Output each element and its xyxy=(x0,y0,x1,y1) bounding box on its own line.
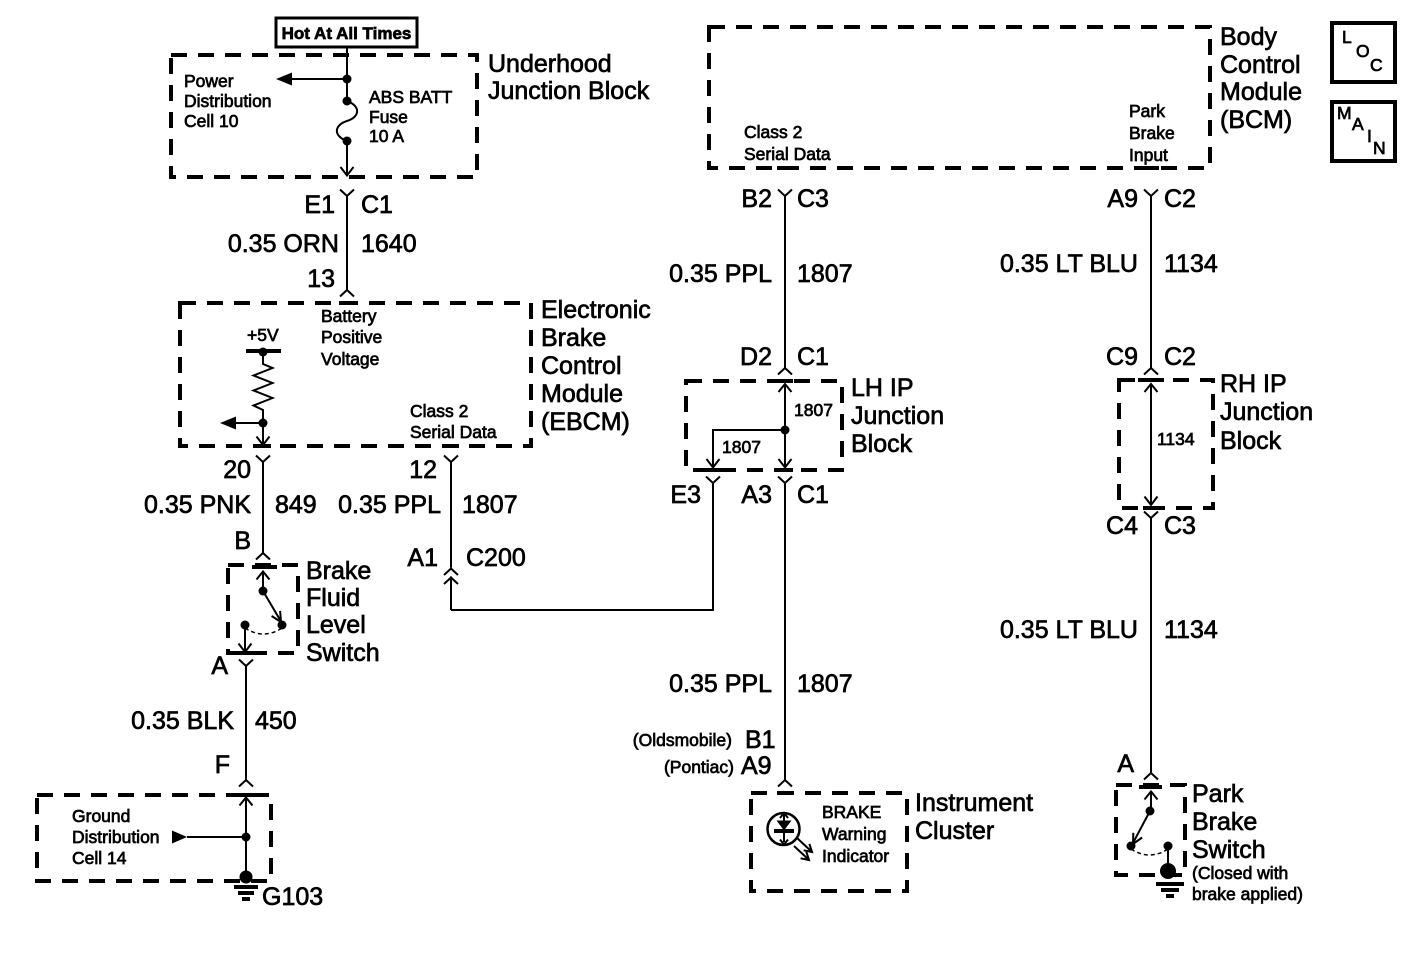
svg-text:1134: 1134 xyxy=(1164,250,1218,278)
svg-text:Brake: Brake xyxy=(1129,123,1175,143)
LOC legend box xyxy=(1332,23,1395,82)
internal branch wire to E3 xyxy=(707,430,786,468)
svg-text:20: 20 xyxy=(223,456,251,484)
Brake Fluid Level Switch box xyxy=(228,565,298,653)
connector chevron into Park Brake Switch pin A xyxy=(1144,773,1158,780)
svg-text:Brake: Brake xyxy=(541,324,606,352)
svg-text:A9: A9 xyxy=(741,752,772,780)
svg-text:A: A xyxy=(1117,750,1134,778)
EBCM edge dash at pin 12 xyxy=(443,444,459,448)
edge dash at ground wire entry xyxy=(238,793,254,797)
svg-text:C2: C2 xyxy=(1164,343,1196,371)
svg-text:1640: 1640 xyxy=(361,230,417,258)
Park Brake Input label (BCM) xyxy=(1129,101,1175,165)
svg-text:brake applied): brake applied) xyxy=(1192,884,1303,904)
switch pivot dot xyxy=(1146,807,1155,816)
Brake Fluid Level Switch label xyxy=(306,557,380,667)
svg-text:Cell 14: Cell 14 xyxy=(72,848,127,868)
dashed travel arc xyxy=(1131,849,1168,855)
svg-text:O: O xyxy=(1356,41,1370,61)
ground symbol G103 xyxy=(234,887,258,899)
svg-text:L: L xyxy=(1342,27,1352,47)
BRAKE Warning Indicator label xyxy=(822,802,889,866)
Body Control Module (BCM) box xyxy=(709,27,1210,168)
svg-text:Block: Block xyxy=(851,430,913,458)
svg-text:Block: Block xyxy=(1220,427,1282,455)
svg-text:ABS BATT: ABS BATT xyxy=(369,87,453,107)
switch left contact dot xyxy=(1127,842,1136,851)
svg-text:C4: C4 xyxy=(1106,512,1138,540)
switch blade with arrowhead xyxy=(263,591,281,622)
Instrument Cluster label xyxy=(915,789,1033,845)
resistor R1 (pull-up in EBCM) xyxy=(254,352,273,423)
svg-text:Cluster: Cluster xyxy=(915,817,994,845)
connector chevron into Instrument Cluster xyxy=(778,780,792,787)
wire below C200 xyxy=(450,577,452,611)
switch left contact dot xyxy=(241,621,250,630)
connector chevron pin A xyxy=(239,660,253,667)
in-line connector C200 double chevron xyxy=(444,569,458,585)
svg-text:Battery: Battery xyxy=(321,306,377,326)
connector chevron pin 12 (EBCM) xyxy=(444,456,458,463)
svg-text:C: C xyxy=(1370,55,1383,75)
Electronic Brake Control Module (EBCM) label xyxy=(541,296,651,436)
svg-text:0.35 PNK: 0.35 PNK xyxy=(144,491,251,519)
Instrument Cluster box xyxy=(751,793,907,891)
svg-text:C3: C3 xyxy=(1164,512,1196,540)
svg-text:A3: A3 xyxy=(741,481,772,509)
svg-text:(Closed with: (Closed with xyxy=(1192,863,1288,883)
connector chevron LH IP pin A3 xyxy=(778,477,792,484)
svg-text:(Oldsmobile): (Oldsmobile) xyxy=(633,730,732,750)
switch blade with arrowhead xyxy=(1133,811,1150,844)
svg-text:Warning: Warning xyxy=(822,824,887,844)
svg-text:Distribution: Distribution xyxy=(184,91,272,111)
svg-text:BRAKE: BRAKE xyxy=(822,802,881,822)
RH IP Junction Block box xyxy=(1119,380,1213,508)
svg-text:C2: C2 xyxy=(1164,185,1196,213)
svg-text:849: 849 xyxy=(275,491,317,519)
EBCM box xyxy=(180,303,531,446)
svg-text:Control: Control xyxy=(541,352,622,380)
internal wire down to A3 with arrow xyxy=(779,430,792,468)
svg-text:0.35 PPL: 0.35 PPL xyxy=(669,260,772,288)
Closed with brake applied note xyxy=(1192,863,1303,904)
svg-text:(EBCM): (EBCM) xyxy=(541,408,630,436)
MAIN legend box xyxy=(1332,102,1395,161)
wire 0.35 PPL 1807 (LH IP to Instrument Cluster) xyxy=(784,483,786,780)
wire 0.35 LT BLU 1134 (RH IP to Park Brake Switch) xyxy=(1150,518,1152,773)
wire 0.35 LT BLU 1134 (BCM to RH IP) xyxy=(1150,196,1152,368)
EBCM edge dash at pin 20 xyxy=(255,444,271,448)
svg-text:F: F xyxy=(215,751,230,779)
svg-text:D2: D2 xyxy=(740,343,772,371)
wire 0.35 PPL 1807 (EBCM to C200) xyxy=(450,462,452,568)
svg-text:450: 450 xyxy=(255,707,297,735)
svg-text:Switch: Switch xyxy=(1192,836,1266,864)
Underhood Junction Block box xyxy=(171,55,477,177)
wire 0.35 PPL 1807 (BCM to LH IP) xyxy=(784,196,786,368)
svg-text:12: 12 xyxy=(409,456,437,484)
svg-text:G103: G103 xyxy=(262,883,323,911)
wire 0.35 PNK 849 xyxy=(262,462,264,553)
wire from Hot At All Times into Underhood Junction Block xyxy=(346,47,348,101)
terminal bar pin A xyxy=(1139,785,1162,789)
Battery Positive Voltage label xyxy=(321,306,382,369)
svg-text:Instrument: Instrument xyxy=(915,789,1033,817)
svg-text:Park: Park xyxy=(1192,780,1244,808)
svg-text:M: M xyxy=(1337,103,1352,123)
wire to EBCM pin 20 with arrow xyxy=(257,423,270,445)
switch right contact dot xyxy=(278,621,287,630)
LH IP edge dash at pin D2 xyxy=(777,379,793,383)
connector chevron RH IP pin C4 xyxy=(1144,512,1158,519)
svg-text:Class 2: Class 2 xyxy=(410,401,468,421)
svg-text:E1: E1 xyxy=(304,191,335,219)
wire from contact to ground dot xyxy=(1167,846,1169,871)
internal wire with up arrow (LH IP) xyxy=(779,384,792,430)
switch right contact dot xyxy=(1164,842,1173,851)
svg-text:Fuse: Fuse xyxy=(369,107,408,127)
switch S2 internal arrow up xyxy=(1145,792,1158,812)
svg-text:C1: C1 xyxy=(797,343,829,371)
LED indicator lamp symbol xyxy=(768,813,800,845)
fuse F1 ABS BATT 10 A xyxy=(337,97,357,146)
wire 0.35 BLK 450 xyxy=(245,666,247,780)
branch arrow to ground distribution xyxy=(172,831,246,844)
Ground Distribution Cell 14 box xyxy=(37,795,271,881)
svg-text:A: A xyxy=(1352,114,1364,134)
svg-text:0.35 BLK: 0.35 BLK xyxy=(131,707,234,735)
svg-text:Distribution: Distribution xyxy=(72,827,160,847)
svg-text:A: A xyxy=(211,652,228,680)
connector chevron BCM pin A9 xyxy=(1144,190,1158,197)
ground terminal dot (Park Brake Switch) xyxy=(1160,863,1176,879)
Class 2 Serial Data label (BCM) xyxy=(744,122,831,164)
svg-text:0.35 ORN: 0.35 ORN xyxy=(228,230,339,258)
Park Brake Switch box xyxy=(1116,785,1185,875)
svg-text:C9: C9 xyxy=(1106,343,1138,371)
svg-text:1807: 1807 xyxy=(722,437,761,457)
svg-text:(Pontiac): (Pontiac) xyxy=(664,757,734,777)
junction dot at fuse top branch xyxy=(343,75,352,84)
internal wire through RH IP with arrows xyxy=(1145,384,1158,505)
svg-text:RH IP: RH IP xyxy=(1220,370,1287,398)
svg-text:Hot At All Times: Hot At All Times xyxy=(282,24,412,43)
ABS BATT Fuse 10 A label xyxy=(369,87,453,146)
svg-text:1807: 1807 xyxy=(462,491,518,519)
internal branch left arrow xyxy=(220,417,263,430)
wire from fuse to box edge with arrow xyxy=(341,141,354,176)
Underhood Junction Block label xyxy=(488,50,650,105)
svg-text:Switch: Switch xyxy=(306,639,380,667)
ground wire with up arrow xyxy=(240,798,253,878)
connector chevron into LH IP pin D2 xyxy=(778,368,792,375)
svg-text:Positive: Positive xyxy=(321,327,382,347)
wire branch to Power Distribution (left arrow) xyxy=(276,73,347,86)
connector chevron into Brake Fluid Level Switch pin B xyxy=(256,553,270,560)
LH IP edge dash at pin E3 exit xyxy=(705,468,721,472)
svg-text:Power: Power xyxy=(184,71,234,91)
svg-text:Brake: Brake xyxy=(306,557,371,585)
svg-text:0.35 LT BLU: 0.35 LT BLU xyxy=(1000,616,1138,644)
junction dot below resistor xyxy=(259,419,268,428)
Body Control Module (BCM) label xyxy=(1220,23,1302,134)
svg-text:LH IP: LH IP xyxy=(851,374,914,402)
junction dot on ground wire xyxy=(242,833,251,842)
svg-text:A1: A1 xyxy=(407,544,438,572)
EBCM edge dash at pin 13 xyxy=(339,301,355,305)
wire run from C200 to LH IP pin E3 xyxy=(451,483,713,610)
svg-text:Module: Module xyxy=(1220,78,1302,106)
svg-text:Cell 10: Cell 10 xyxy=(184,111,239,131)
svg-text:0.35 PPL: 0.35 PPL xyxy=(669,670,772,698)
+5V supply bar xyxy=(246,349,281,353)
junction dot in LH IP xyxy=(781,426,790,435)
dashed travel arc xyxy=(245,628,282,634)
svg-text:Park: Park xyxy=(1129,101,1165,121)
svg-text:B: B xyxy=(234,527,251,555)
svg-text:B2: B2 xyxy=(741,185,772,213)
LH IP Junction Block box xyxy=(686,381,842,470)
RH IP Junction Block label xyxy=(1220,370,1313,455)
terminal bar pin B xyxy=(252,565,277,569)
svg-text:C1: C1 xyxy=(361,191,393,219)
svg-text:N: N xyxy=(1373,138,1386,158)
Power Distribution Cell 10 label xyxy=(184,71,272,131)
svg-text:E3: E3 xyxy=(670,481,701,509)
ground terminal dot G103 xyxy=(240,871,253,884)
LH IP edge dash at pin A3 exit xyxy=(777,468,793,472)
svg-text:Junction: Junction xyxy=(1220,398,1313,426)
svg-text:Serial Data: Serial Data xyxy=(744,144,831,164)
svg-text:Control: Control xyxy=(1220,51,1301,79)
svg-text:(BCM): (BCM) xyxy=(1220,106,1292,134)
svg-text:A9: A9 xyxy=(1107,185,1138,213)
box edge dash at pin A xyxy=(237,651,253,655)
svg-text:0.35 PPL: 0.35 PPL xyxy=(338,491,441,519)
svg-text:Fluid: Fluid xyxy=(306,584,360,612)
connector chevron into Ground Distribution pin F xyxy=(239,780,253,787)
svg-text:Brake: Brake xyxy=(1192,808,1257,836)
svg-text:1807: 1807 xyxy=(797,670,853,698)
svg-text:Input: Input xyxy=(1129,145,1168,165)
Park Brake Switch label xyxy=(1192,780,1266,864)
LH IP Junction Block label xyxy=(851,374,944,458)
svg-text:+5V: +5V xyxy=(247,325,279,345)
BCM edge dash at Park Brake Input exit xyxy=(1143,166,1159,170)
svg-text:C200: C200 xyxy=(466,544,526,572)
svg-text:Serial Data: Serial Data xyxy=(410,422,497,442)
BCM edge dash at Class 2 exit xyxy=(777,166,793,170)
svg-text:0.35 LT BLU: 0.35 LT BLU xyxy=(1000,250,1138,278)
svg-text:10 A: 10 A xyxy=(369,126,404,146)
svg-text:1134: 1134 xyxy=(1164,616,1218,644)
svg-text:I: I xyxy=(1367,126,1372,146)
RH IP edge dash at pin C4 xyxy=(1143,506,1159,510)
wire 0.35 ORN 1640 xyxy=(346,196,348,290)
svg-text:1807: 1807 xyxy=(794,400,833,420)
svg-text:1134: 1134 xyxy=(1157,429,1195,449)
Ground Distribution Cell 14 label xyxy=(72,806,160,868)
connector chevron into EBCM pin 13 xyxy=(340,290,354,297)
wire from left contact to pin A with arrow xyxy=(239,625,252,652)
svg-text:Underhood: Underhood xyxy=(488,50,612,78)
svg-text:Junction: Junction xyxy=(851,402,944,430)
svg-text:Electronic: Electronic xyxy=(541,296,651,324)
svg-text:Indicator: Indicator xyxy=(822,846,889,866)
connector chevron into RH IP pin C9 xyxy=(1144,368,1158,375)
svg-text:Body: Body xyxy=(1220,23,1277,51)
svg-text:Class 2: Class 2 xyxy=(744,122,802,142)
svg-text:1807: 1807 xyxy=(797,260,853,288)
ground symbol (Park Brake Switch) xyxy=(1156,884,1184,896)
switch S1 internal arrow up xyxy=(257,572,270,592)
svg-text:B1: B1 xyxy=(745,726,776,754)
LED light emission arrows xyxy=(794,838,812,860)
RH IP edge bar at pin C9 xyxy=(1138,378,1164,382)
svg-text:Ground: Ground xyxy=(72,806,130,826)
connector chevron pin 20 xyxy=(256,456,270,463)
connector chevron BCM pin B2 xyxy=(778,190,792,197)
svg-text:C1: C1 xyxy=(797,481,829,509)
Hot At All Times label box xyxy=(276,18,417,47)
svg-text:Module: Module xyxy=(541,380,623,408)
connector chevron LH IP pin E3 xyxy=(706,477,720,484)
connector C1 pin E1 chevron xyxy=(340,190,354,197)
svg-text:Level: Level xyxy=(306,611,366,639)
node at +5V bar xyxy=(259,348,268,357)
IC edge dash at wire entry xyxy=(777,791,793,795)
switch pivot dot xyxy=(259,587,268,596)
Class 2 Serial Data label (EBCM) xyxy=(410,401,497,442)
svg-text:Junction Block: Junction Block xyxy=(488,77,650,105)
svg-text:13: 13 xyxy=(307,265,335,293)
svg-text:Voltage: Voltage xyxy=(321,349,379,369)
svg-text:C3: C3 xyxy=(797,185,829,213)
